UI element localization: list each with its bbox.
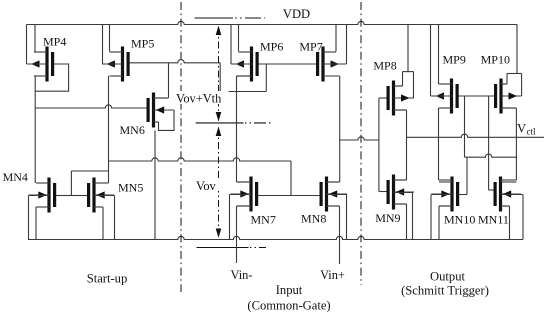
wire schmitt gate column <box>464 96 466 157</box>
wire MP9 drain down to MN10 <box>438 108 440 180</box>
wire MN7 bulk to ground <box>230 194 252 196</box>
wire MP4 source to VDD <box>34 25 36 52</box>
transistor MN9 <box>387 175 415 210</box>
wire MP8 drain down <box>394 109 407 111</box>
transistor MP8 <box>387 81 415 116</box>
transistor MP10 <box>494 79 522 114</box>
wire MP4 drain down to MN4 <box>34 91 36 183</box>
wire MN5 source to ground <box>102 207 104 240</box>
label Vov <box>194 178 220 191</box>
wire MP10 drain down <box>501 107 516 109</box>
wire MN8 bulk to ground <box>327 194 347 196</box>
wire MP5 drain down <box>108 76 110 183</box>
wire MN10 source to ground <box>439 205 452 207</box>
wire MP5 bulk to VDD <box>102 25 104 65</box>
transistor MN8 <box>320 177 348 212</box>
wire MN10 gate tap <box>466 157 468 194</box>
wire bias down to gates <box>290 161 292 196</box>
transistor MN7 <box>231 177 259 212</box>
transistor MN4 <box>29 178 57 213</box>
transistor MP9 <box>431 79 459 114</box>
wire MP5 gate lead to Vov+Vth node <box>130 60 221 63</box>
wire bias MN5-drain to MN7/MN8 gates <box>109 158 292 161</box>
wire MN11 source to ground <box>501 205 510 207</box>
wire MN7 drain stub <box>237 181 252 183</box>
wire MN11 drain stub <box>501 179 517 181</box>
wire MN8 gate lead <box>291 195 320 197</box>
wire MN6 source to ground <box>154 130 156 239</box>
transistor MN5 <box>87 178 115 213</box>
section separator input/output <box>360 2 362 285</box>
svg-text:MP4: MP4 <box>43 35 66 49</box>
transistor MP4 <box>27 47 55 82</box>
transistor MN6 <box>147 93 175 128</box>
svg-text:MN7: MN7 <box>251 213 276 227</box>
svg-text:Input: Input <box>276 283 303 297</box>
wire MN4-MN5 gate tie up <box>70 171 72 196</box>
reference line at Vov+Vth node <box>196 122 244 124</box>
wire MN8 source to Vin+ <box>327 205 340 207</box>
wire MP6 diode connect <box>265 64 267 92</box>
wire MP8 source-bulk to VDD <box>407 25 409 72</box>
transistor MP5 <box>102 47 130 82</box>
dimension arrowhead Vov+Vth top <box>216 26 222 36</box>
wire MP7 bulk to VDD <box>323 63 347 65</box>
svg-text:MP5: MP5 <box>131 37 154 51</box>
svg-text:V: V <box>517 122 526 136</box>
svg-text:(Schmitt Trigger): (Schmitt Trigger) <box>401 284 489 298</box>
wire MN10 drain stub <box>439 179 453 181</box>
wire cascode MP6-MN7 <box>236 92 238 183</box>
svg-text:Output: Output <box>430 270 465 284</box>
wire MN9 gate lead <box>379 191 387 193</box>
svg-text:Vov: Vov <box>196 179 217 193</box>
wire MP9-MP10 gate tie <box>459 95 495 97</box>
wire MP7 drain down <box>323 75 340 77</box>
svg-text:ctl: ctl <box>527 127 536 137</box>
wire MN9 drain stub <box>394 179 407 181</box>
wire node-A Vctl <box>407 134 544 137</box>
wire MP4 bulk to VDD <box>26 25 28 65</box>
wire MP8 gate lead <box>379 97 387 99</box>
svg-text:Vin-: Vin- <box>231 268 253 282</box>
svg-text:MN9: MN9 <box>375 211 400 225</box>
transistor MP7 <box>316 47 344 82</box>
wire MP6 drain loop <box>237 75 239 77</box>
label Vov+Vth <box>175 91 229 104</box>
wire node to cascode column <box>220 91 266 93</box>
wire MN5 gate lead <box>71 195 87 197</box>
VDD rail <box>27 21 518 24</box>
svg-text:VDD: VDD <box>283 7 310 21</box>
wire MP9 bulk to VDD <box>430 25 432 97</box>
wire MN9 source to ground <box>394 203 407 205</box>
transistor MP6 <box>231 47 259 82</box>
wire MP6 source to VDD <box>238 25 240 52</box>
wire MN4 gate lead <box>56 195 71 197</box>
svg-text:Start-up: Start-up <box>87 272 128 286</box>
wire MN8 drain stub <box>327 181 340 183</box>
wire MN11 bulk to ground <box>501 194 524 196</box>
svg-text:MP10: MP10 <box>481 53 510 67</box>
svg-text:MN6: MN6 <box>120 123 145 137</box>
wire Vov+Vth node down <box>219 63 221 92</box>
wire schmitt gate row <box>465 154 517 157</box>
wire MP7 source to VDD <box>335 25 337 52</box>
svg-text:MP6: MP6 <box>260 40 283 54</box>
wire MN6 bulk-source loop <box>159 110 175 130</box>
svg-text:MN10: MN10 <box>444 213 475 227</box>
wire MP5 source to VDD <box>109 25 111 52</box>
wire MN11 gate column <box>488 96 490 190</box>
wire MP4 gate-drain loop <box>35 64 68 91</box>
wire MP9 source to VDD <box>438 25 440 85</box>
wire MN6 drain up to MP5 gate <box>168 63 170 98</box>
dimension arrowhead Vov top <box>216 127 222 137</box>
wire MN5 bulk to ground <box>94 195 115 197</box>
svg-text:Vov+Vth: Vov+Vth <box>176 92 222 106</box>
wire MN7 gate lead <box>258 195 291 197</box>
svg-text:MN5: MN5 <box>118 181 143 195</box>
svg-text:MN11: MN11 <box>478 213 509 227</box>
dimension line Vov <box>218 128 220 238</box>
wire MP7 drain to MP8/MN9 gates <box>340 137 379 140</box>
wire MN9 bulk to ground <box>394 192 413 194</box>
dimension arrowhead Vov+Vth bottom <box>216 112 222 122</box>
section separator start-up/input <box>180 2 182 292</box>
svg-text:Vin+: Vin+ <box>320 268 345 282</box>
wire MN6 gate wire <box>35 105 146 108</box>
wire MP6-MP7 gate tie <box>259 63 319 65</box>
svg-text:MP8: MP8 <box>373 59 396 73</box>
annotation dash line above VDD rail <box>195 17 233 19</box>
wire MN10 bulk to ground <box>431 194 452 196</box>
svg-text:MN8: MN8 <box>301 212 326 226</box>
transistor MN11 <box>494 177 522 212</box>
wire MP6 bulk to VDD <box>230 25 232 65</box>
svg-text:(Common-Gate): (Common-Gate) <box>247 299 330 313</box>
dimension line Vov+Vth <box>218 27 220 121</box>
wire MN4 source to ground <box>35 207 37 240</box>
svg-text:MN4: MN4 <box>3 170 28 184</box>
svg-text:MP9: MP9 <box>443 53 466 67</box>
transistor MN10 <box>432 177 460 212</box>
wire MN7 source to Vin- <box>237 205 252 207</box>
wire MP10 source-bulk to VDD <box>516 25 518 74</box>
reference line below ground rail <box>197 247 249 249</box>
wire MN4 bulk to ground <box>28 196 30 240</box>
ground rail <box>28 236 523 239</box>
dimension arrowhead Vov bottom <box>216 229 222 239</box>
wire MP8/MN9 gate column <box>378 98 380 192</box>
svg-text:MP7: MP7 <box>299 40 322 54</box>
